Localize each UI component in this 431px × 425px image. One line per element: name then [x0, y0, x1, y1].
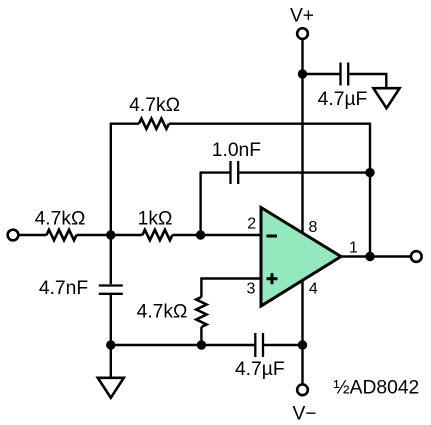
svg-text:1.0nF: 1.0nF	[212, 140, 261, 161]
wire pin 4 down to V-	[301, 278, 303, 385]
capacitor 4.7uF bottom	[255, 333, 263, 357]
op-amp minus sign pin 2	[267, 235, 278, 238]
wire input terminal to R 4.7k	[19, 234, 47, 236]
terminal V+	[297, 28, 308, 39]
svg-text:3: 3	[247, 280, 256, 297]
wire bypass capacitor to ground	[349, 74, 386, 89]
resistor 4.7k feedback	[139, 118, 169, 128]
svg-text:½AD8042: ½AD8042	[334, 377, 420, 398]
svg-text:4: 4	[309, 280, 318, 297]
wire 1.0nF vertical from inverting node	[199, 173, 201, 235]
junction bottom-middle node	[197, 340, 206, 349]
capacitor bypass 4.7uF (V+)	[341, 63, 349, 86]
junction input node	[106, 230, 115, 239]
wire V+ rail down to pin 8	[301, 39, 303, 233]
wire bottom rail left	[111, 344, 255, 346]
wire feedback top horizontal right and down to output node	[169, 124, 370, 257]
wire bottom rail right	[264, 344, 303, 346]
resistor 4.7k input	[47, 230, 77, 240]
wire bottom-left node to ground	[110, 345, 112, 378]
svg-text:1: 1	[349, 239, 358, 256]
svg-text:V+: V+	[290, 6, 314, 27]
wire 1.0nF horizontal right	[239, 171, 370, 173]
svg-text:V−: V−	[292, 403, 316, 424]
junction V+ bypass node	[298, 69, 307, 78]
wire input node down to 4.7nF	[110, 235, 112, 284]
wire output	[341, 255, 410, 257]
svg-text:4.7kΩ: 4.7kΩ	[35, 209, 86, 230]
svg-text:4.7nF: 4.7nF	[39, 278, 88, 299]
op-amp plus sign pin 3	[267, 273, 278, 284]
svg-text:2: 2	[247, 215, 256, 232]
op-amp U1 half AD8042	[261, 208, 341, 307]
junction bottom-left node	[106, 340, 115, 349]
terminal output	[411, 251, 422, 262]
resistor 4.7k to ground leg	[196, 297, 206, 327]
svg-text:4.7kΩ: 4.7kΩ	[137, 302, 188, 323]
resistor 1k	[142, 230, 172, 240]
svg-text:1kΩ: 1kΩ	[138, 209, 173, 230]
capacitor 1.0nF	[231, 161, 239, 184]
wire 4.7nF down to bottom-left node	[110, 295, 112, 345]
capacitor 4.7nF vertical	[99, 286, 123, 294]
terminal input	[8, 230, 19, 241]
junction feedback node	[365, 168, 374, 177]
junction inverting node	[196, 230, 205, 239]
wire 1.0nF horizontal left	[200, 171, 230, 173]
ground top right	[373, 88, 399, 108]
wire feedback left vertical	[110, 124, 112, 235]
ground bottom left	[98, 378, 124, 398]
wire pin 3 to corner	[201, 279, 261, 298]
junction output node	[365, 252, 374, 261]
svg-text:4.7kΩ: 4.7kΩ	[129, 95, 180, 116]
wire 4.7k to bottom-middle node	[200, 327, 202, 345]
svg-text:4.7µF: 4.7µF	[318, 89, 368, 110]
junction bottom-right node	[298, 340, 307, 349]
wire 1k to inverting node and pin 2	[172, 234, 261, 236]
wire V+ node to bypass capacitor	[303, 73, 340, 75]
wire R 4.7k to input node	[77, 234, 143, 236]
svg-text:4.7µF: 4.7µF	[235, 359, 285, 380]
terminal V-	[297, 384, 308, 395]
wire feedback top horizontal left	[110, 122, 139, 124]
svg-text:8: 8	[309, 219, 318, 236]
